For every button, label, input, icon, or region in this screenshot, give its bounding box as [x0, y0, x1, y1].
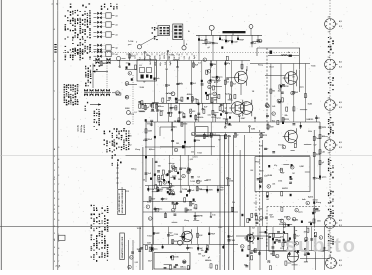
svg-text:FMZF: FMZF	[211, 234, 216, 236]
svg-text:7: 7	[58, 261, 59, 263]
svg-text:22k: 22k	[272, 184, 275, 186]
svg-text:Klang: Klang	[129, 113, 134, 115]
svg-text:1: 1	[54, 119, 55, 121]
svg-text:g2: g2	[208, 257, 210, 259]
svg-text:ABGLEICH 460 kHz ZF: ABGLEICH 460 kHz ZF	[118, 192, 121, 212]
svg-text:Klang: Klang	[184, 220, 189, 222]
svg-text:1: 1	[54, 156, 55, 158]
svg-text:k: k	[214, 94, 215, 96]
svg-text:2: 2	[54, 254, 55, 256]
svg-text:Sp31: Sp31	[170, 61, 172, 66]
svg-text:Tr104: Tr104	[311, 64, 315, 67]
svg-text:Klang: Klang	[316, 202, 321, 204]
svg-text:8uF: 8uF	[186, 210, 189, 212]
svg-text:k: k	[292, 167, 293, 169]
svg-text:Klang: Klang	[227, 125, 232, 127]
svg-text:Netz: Netz	[159, 189, 163, 192]
svg-text:0,02: 0,02	[184, 56, 186, 59]
svg-text:k: k	[184, 262, 185, 264]
svg-text:Tr104: Tr104	[169, 53, 174, 56]
svg-text:k: k	[152, 249, 153, 251]
svg-text:4: 4	[54, 239, 55, 242]
svg-text:2k2: 2k2	[278, 91, 281, 93]
svg-text:7: 7	[58, 184, 59, 186]
svg-text:2: 2	[54, 233, 55, 235]
svg-text:50uF: 50uF	[148, 261, 152, 263]
svg-text:100p: 100p	[220, 187, 224, 189]
svg-text:k: k	[268, 186, 269, 188]
svg-text:kath: kath	[156, 77, 160, 80]
svg-text:9: 9	[54, 219, 55, 221]
svg-text:W19: W19	[155, 62, 157, 66]
svg-text:C104: C104	[174, 233, 178, 236]
svg-text:Sp312: Sp312	[225, 94, 230, 96]
svg-text:220k: 220k	[178, 179, 182, 181]
svg-text:2k2: 2k2	[295, 92, 298, 94]
svg-text:FMZF: FMZF	[255, 162, 260, 164]
svg-text:7 9: 7 9	[328, 112, 331, 114]
svg-text:k: k	[204, 60, 205, 62]
svg-text:C104: C104	[182, 167, 186, 170]
svg-text:1n5: 1n5	[191, 190, 194, 192]
svg-text:g2: g2	[147, 107, 149, 109]
svg-text:Tr104: Tr104	[147, 234, 151, 237]
svg-text:R112: R112	[125, 191, 129, 193]
svg-text:L41: L41	[204, 251, 207, 254]
svg-text:0,5M: 0,5M	[148, 131, 152, 133]
svg-text:8uF 22: 8uF 22	[150, 59, 152, 65]
svg-text:FMZF: FMZF	[172, 176, 177, 178]
svg-text:47p: 47p	[274, 164, 277, 167]
svg-text:6: 6	[54, 247, 55, 249]
svg-text:3: 3	[54, 191, 55, 193]
svg-text:0,5M: 0,5M	[251, 128, 255, 130]
svg-text:460kHz: 460kHz	[205, 259, 211, 262]
svg-text:Netz: Netz	[164, 198, 168, 201]
svg-text:az: az	[295, 230, 297, 232]
svg-text:0,1: 0,1	[198, 63, 201, 65]
svg-text:k: k	[183, 176, 184, 178]
svg-text:AMosc: AMosc	[196, 180, 202, 183]
svg-text:56k: 56k	[244, 265, 247, 267]
svg-text:1n5: 1n5	[193, 83, 196, 85]
svg-text:4: 4	[58, 158, 59, 161]
svg-text:9: 9	[54, 179, 55, 181]
svg-text:g2: g2	[190, 170, 192, 172]
svg-text:k: k	[150, 218, 151, 220]
svg-text:56k: 56k	[232, 202, 235, 204]
svg-text:0,1: 0,1	[227, 82, 229, 84]
svg-text:gnws: gnws	[217, 117, 222, 119]
svg-text:FMZF: FMZF	[239, 40, 244, 42]
svg-text:8uF: 8uF	[179, 83, 182, 85]
svg-text:1: 1	[58, 167, 59, 169]
svg-text:Tr 104: Tr 104	[128, 40, 133, 43]
svg-text:L41: L41	[170, 112, 173, 115]
svg-text:0,02: 0,02	[199, 235, 202, 237]
svg-text:220k: 220k	[214, 43, 218, 45]
svg-text:0,1: 0,1	[244, 103, 246, 105]
svg-text:k: k	[156, 210, 157, 212]
svg-text:ratio 8u: ratio 8u	[77, 124, 80, 132]
svg-text:1: 1	[58, 255, 59, 257]
svg-text:4: 4	[58, 205, 59, 208]
svg-text:k: k	[307, 203, 308, 205]
svg-text:EM80: EM80	[125, 108, 129, 110]
svg-text:SCHALTPLAN GRUNDIG 97: SCHALTPLAN GRUNDIG 97	[121, 186, 124, 213]
svg-text:350V Sp: 350V Sp	[81, 124, 83, 132]
svg-text:az: az	[237, 135, 239, 137]
svg-text:L41: L41	[129, 135, 132, 138]
svg-text:0,5M: 0,5M	[227, 136, 231, 138]
svg-text:L41: L41	[322, 150, 325, 153]
svg-text:EL84: EL84	[140, 86, 144, 89]
svg-text:ECC85: ECC85	[278, 144, 284, 146]
svg-text:g2: g2	[322, 162, 324, 164]
svg-text:EL84: EL84	[147, 201, 151, 204]
svg-text:1n5: 1n5	[148, 173, 151, 175]
svg-text:100p: 100p	[251, 238, 255, 240]
svg-text:0,1: 0,1	[134, 112, 136, 114]
svg-text:0,5M: 0,5M	[300, 166, 304, 168]
svg-text:3: 3	[54, 61, 55, 63]
svg-text:Tr104: Tr104	[182, 188, 187, 191]
svg-text:kath: kath	[302, 198, 306, 201]
svg-text:1n5: 1n5	[245, 239, 248, 241]
svg-text:NF r: NF r	[174, 55, 176, 59]
svg-text:56k: 56k	[214, 100, 217, 102]
svg-text:ECC85: ECC85	[292, 220, 298, 222]
svg-text:g: g	[172, 210, 173, 212]
svg-text:k: k	[296, 210, 297, 212]
svg-text:50u: 50u	[189, 56, 191, 59]
svg-text:2: 2	[58, 175, 59, 177]
svg-text:5: 5	[54, 177, 55, 179]
svg-text:Tr104: Tr104	[190, 180, 194, 183]
svg-text:7: 7	[58, 227, 59, 229]
svg-text:Sp312: Sp312	[313, 200, 318, 202]
svg-text:3: 3	[54, 170, 55, 172]
svg-text:220k: 220k	[308, 131, 312, 133]
svg-text:k: k	[276, 256, 277, 258]
svg-text:10,7: 10,7	[233, 84, 236, 86]
svg-text:AMosc: AMosc	[149, 148, 155, 151]
svg-text:9: 9	[54, 261, 55, 263]
svg-text:k: k	[208, 71, 209, 73]
svg-text:8uF: 8uF	[202, 256, 205, 258]
svg-text:8uF: 8uF	[230, 236, 233, 238]
svg-text:a1: a1	[116, 16, 118, 18]
svg-text:k: k	[273, 113, 274, 115]
svg-text:a1: a1	[116, 25, 118, 27]
svg-text:C104: C104	[178, 99, 182, 102]
svg-text:k: k	[267, 106, 268, 108]
svg-text:ratio: ratio	[126, 62, 130, 65]
svg-text:10,7 8: 10,7 8	[179, 54, 181, 59]
svg-text:9: 9	[58, 147, 59, 149]
svg-text:56k: 56k	[213, 64, 216, 66]
svg-text:W19: W19	[316, 154, 320, 156]
svg-text:AMosc: AMosc	[158, 105, 164, 108]
svg-text:gnws: gnws	[299, 87, 304, 89]
svg-text:Tr104: Tr104	[197, 151, 201, 154]
svg-text:4: 4	[58, 247, 59, 250]
svg-text:22k: 22k	[228, 179, 231, 181]
svg-text:a1: a1	[116, 54, 118, 56]
svg-text:50uF: 50uF	[212, 80, 216, 82]
svg-text:R112: R112	[207, 180, 211, 182]
svg-text:EL84: EL84	[270, 66, 274, 69]
svg-text:22k: 22k	[285, 115, 288, 117]
svg-text:C61: C61	[176, 143, 179, 145]
svg-text:L5: L5	[140, 65, 142, 67]
svg-text:5: 5	[54, 212, 55, 214]
svg-text:L41: L41	[142, 179, 145, 182]
svg-text:k: k	[173, 168, 174, 170]
svg-text:R112: R112	[285, 86, 289, 88]
svg-text:220k 1: 220k 1	[164, 53, 166, 58]
svg-text:50uF 470: 50uF 470	[83, 125, 86, 133]
svg-text:10,7: 10,7	[221, 40, 224, 42]
svg-text:g2: g2	[227, 41, 229, 43]
svg-text:Sp31: Sp31	[194, 55, 196, 59]
svg-text:220k: 220k	[154, 55, 156, 59]
svg-text:kath: kath	[259, 237, 263, 240]
svg-text:k: k	[192, 134, 193, 136]
svg-text:3: 3	[54, 226, 55, 228]
svg-text:AM/FM: AM/FM	[103, 62, 109, 65]
svg-text:FMZF: FMZF	[155, 233, 160, 235]
svg-text:56k: 56k	[201, 250, 204, 252]
svg-text:8uF: 8uF	[281, 173, 284, 175]
svg-text:subito: subito	[285, 235, 357, 257]
svg-text:k: k	[242, 246, 243, 248]
svg-text:4700: 4700	[183, 123, 187, 126]
svg-text:kath: kath	[264, 174, 267, 177]
svg-text:56k: 56k	[158, 166, 161, 168]
svg-text:gnws: gnws	[214, 112, 218, 114]
svg-text:gnws: gnws	[218, 77, 222, 79]
svg-text:2: 2	[58, 199, 59, 201]
svg-text:Tast N: Tast N	[158, 54, 161, 60]
svg-text:gnws: gnws	[322, 176, 327, 178]
svg-text:Klang: Klang	[316, 178, 321, 180]
svg-text:L41: L41	[266, 198, 269, 201]
svg-text:L41: L41	[194, 97, 197, 100]
svg-text:6: 6	[54, 29, 55, 31]
svg-text:C104: C104	[150, 188, 154, 191]
svg-text:2: 2	[54, 209, 55, 211]
svg-text:460kHz: 460kHz	[187, 93, 193, 96]
svg-text:Klang: Klang	[258, 65, 263, 67]
svg-text:R112: R112	[228, 112, 232, 114]
svg-text:EL84: EL84	[279, 223, 283, 226]
svg-text:EL84: EL84	[268, 174, 272, 177]
svg-text:az: az	[318, 117, 320, 119]
svg-text:k: k	[129, 267, 130, 269]
svg-text:2: 2	[58, 241, 59, 243]
svg-text:schirm: schirm	[192, 157, 198, 159]
svg-text:g2: g2	[208, 47, 210, 49]
svg-text:56k: 56k	[198, 253, 201, 255]
svg-text:az: az	[269, 125, 271, 127]
svg-text:7: 7	[54, 91, 55, 93]
svg-text:R112: R112	[214, 82, 218, 84]
svg-text:2k2: 2k2	[250, 170, 253, 172]
svg-text:7: 7	[54, 184, 55, 186]
svg-text:Klang: Klang	[159, 110, 164, 112]
svg-text:ratio: ratio	[208, 114, 212, 117]
svg-text:AMosc: AMosc	[180, 265, 186, 268]
svg-text:56k: 56k	[272, 91, 275, 93]
svg-text:schirm: schirm	[193, 220, 199, 222]
svg-text:1n5: 1n5	[165, 69, 168, 71]
svg-text:W19: W19	[280, 248, 284, 250]
svg-text:1n5: 1n5	[280, 237, 283, 239]
svg-text:47p: 47p	[172, 184, 175, 187]
svg-text:460kHz: 460kHz	[197, 116, 203, 119]
svg-text:0,1: 0,1	[198, 177, 201, 179]
svg-text:k: k	[209, 87, 210, 89]
svg-text:2k2: 2k2	[131, 56, 134, 58]
svg-text:k: k	[209, 82, 210, 84]
svg-text:R112: R112	[263, 135, 267, 137]
svg-text:9: 9	[58, 220, 59, 222]
svg-text:Klang: Klang	[135, 149, 140, 151]
svg-text:Netz: Netz	[189, 246, 193, 249]
svg-text:ERSATZTEILLISTE GER: ERSATZTEILLISTE GER	[121, 236, 124, 258]
svg-text:2k2: 2k2	[191, 151, 194, 153]
svg-text:2k2: 2k2	[129, 145, 132, 147]
svg-text:9: 9	[54, 198, 55, 200]
svg-text:9: 9	[54, 163, 55, 165]
svg-text:k: k	[283, 147, 284, 149]
svg-text:a1: a1	[116, 35, 118, 37]
svg-text:220k: 220k	[196, 140, 200, 142]
svg-text:0,5M: 0,5M	[259, 145, 263, 147]
svg-text:k: k	[129, 73, 130, 75]
svg-text:10,7: 10,7	[252, 227, 255, 229]
svg-text:Klang: Klang	[228, 99, 233, 101]
svg-text:NF: NF	[171, 171, 173, 173]
svg-text:0,047: 0,047	[147, 241, 151, 244]
svg-text:7: 7	[58, 192, 59, 194]
svg-text:AM/FM: AM/FM	[197, 215, 203, 218]
svg-text:Sp312: Sp312	[308, 197, 313, 199]
svg-text:2: 2	[54, 205, 55, 207]
svg-text:4: 4	[54, 148, 55, 151]
svg-text:220k: 220k	[317, 221, 321, 223]
svg-text:NF: NF	[143, 82, 145, 84]
svg-text:2: 2	[58, 213, 59, 215]
svg-text:Tast: Tast	[316, 137, 320, 140]
svg-text:NF: NF	[218, 139, 220, 141]
svg-text:EABC80: EABC80	[307, 118, 314, 121]
svg-text:0,047: 0,047	[233, 41, 237, 44]
svg-text:k: k	[172, 193, 173, 195]
svg-text:AM/FM: AM/FM	[282, 187, 288, 190]
svg-text:gnws: gnws	[298, 211, 302, 213]
svg-text:Tr104: Tr104	[137, 227, 141, 230]
svg-text:W19: W19	[174, 241, 178, 243]
svg-text:C104: C104	[230, 239, 234, 242]
svg-text:EL84: EL84	[308, 102, 312, 105]
svg-text:Sp312: Sp312	[190, 111, 195, 113]
svg-text:kath: kath	[195, 118, 198, 121]
svg-text:4700: 4700	[284, 215, 288, 218]
svg-text:C104: C104	[278, 179, 282, 182]
svg-text:k: k	[131, 257, 132, 259]
svg-text:R112: R112	[285, 119, 289, 121]
svg-text:0,02: 0,02	[135, 262, 138, 264]
svg-text:gnrt: gnrt	[128, 43, 132, 46]
svg-text:8uF: 8uF	[314, 145, 317, 147]
svg-text:g2: g2	[225, 108, 227, 110]
svg-text:schir: schir	[135, 54, 137, 59]
svg-text:7 9: 7 9	[328, 72, 331, 74]
svg-text:k: k	[281, 221, 282, 223]
svg-text:C104: C104	[279, 168, 283, 171]
svg-text:1n5: 1n5	[212, 215, 215, 217]
svg-text:L41: L41	[272, 105, 275, 108]
